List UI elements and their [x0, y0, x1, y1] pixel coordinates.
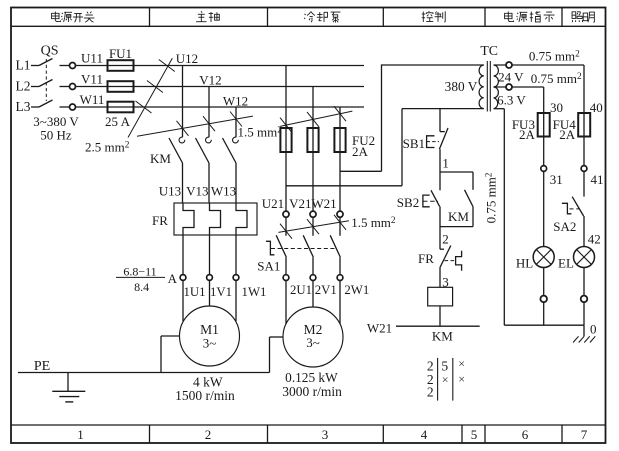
svg-text:V12: V12 [199, 72, 221, 87]
svg-text:2U1: 2U1 [290, 283, 312, 297]
svg-text:6.8−11: 6.8−11 [123, 264, 156, 278]
svg-text:W13: W13 [211, 183, 236, 198]
svg-text:A: A [168, 271, 178, 286]
svg-text:2A: 2A [559, 127, 576, 142]
svg-text:1.5 mm2: 1.5 mm2 [351, 215, 396, 230]
svg-text:SA2: SA2 [553, 219, 576, 234]
svg-text:2.5 mm2: 2.5 mm2 [85, 140, 130, 155]
svg-text:4: 4 [421, 427, 428, 442]
svg-text:3~: 3~ [306, 335, 320, 350]
svg-text:2W1: 2W1 [344, 283, 369, 297]
svg-text:1V1: 1V1 [210, 285, 232, 299]
svg-text:31: 31 [550, 172, 563, 187]
svg-text:W12: W12 [223, 93, 248, 108]
svg-text:5: 5 [471, 427, 478, 442]
svg-text:L2: L2 [16, 79, 31, 94]
svg-text:41: 41 [591, 172, 604, 187]
svg-text:SA1: SA1 [257, 258, 280, 273]
svg-text:FR: FR [152, 213, 168, 228]
svg-text:25 A: 25 A [105, 114, 131, 129]
svg-text:KM: KM [150, 151, 171, 166]
svg-text:3000 r/min: 3000 r/min [282, 384, 342, 399]
svg-text:SB2: SB2 [397, 195, 419, 210]
svg-text:1U1: 1U1 [183, 285, 205, 299]
svg-text:KM: KM [448, 209, 469, 224]
svg-text:2A: 2A [519, 127, 536, 142]
svg-text:42: 42 [588, 232, 601, 247]
svg-text:V13: V13 [186, 183, 208, 198]
svg-text:6.3 V: 6.3 V [497, 92, 526, 107]
svg-text:1: 1 [442, 155, 449, 170]
svg-text:0.75 mm2: 0.75 mm2 [531, 71, 582, 86]
svg-text:W11: W11 [80, 92, 105, 107]
svg-text:U11: U11 [81, 51, 103, 66]
svg-text:2: 2 [205, 427, 212, 442]
svg-text:PE: PE [34, 359, 50, 374]
svg-text:0.125 kW: 0.125 kW [285, 370, 338, 385]
svg-text:V11: V11 [81, 72, 103, 87]
svg-text:1500 r/min: 1500 r/min [175, 388, 235, 403]
svg-text:KM: KM [432, 328, 453, 343]
svg-text:2: 2 [427, 384, 434, 399]
svg-text:EL: EL [558, 255, 574, 270]
svg-text:×: × [458, 372, 465, 386]
svg-text:W21: W21 [311, 196, 336, 211]
svg-text:40: 40 [590, 100, 603, 115]
svg-text:HL: HL [516, 255, 533, 270]
svg-text:0.75 mm2: 0.75 mm2 [484, 173, 499, 224]
svg-text:24 V: 24 V [498, 70, 524, 85]
svg-text:U13: U13 [159, 183, 181, 198]
svg-text:3: 3 [322, 427, 329, 442]
svg-text:2A: 2A [352, 144, 369, 159]
svg-text:U21: U21 [262, 196, 284, 211]
svg-text:380 V: 380 V [445, 79, 478, 94]
svg-text:3~: 3~ [203, 336, 217, 351]
svg-text:U12: U12 [176, 51, 198, 66]
svg-text:0: 0 [590, 322, 597, 337]
svg-text:L1: L1 [16, 58, 31, 73]
svg-text:6: 6 [522, 427, 529, 442]
svg-text:QS: QS [41, 43, 59, 58]
svg-text:1W1: 1W1 [242, 285, 267, 299]
svg-text:FU1: FU1 [109, 46, 132, 61]
svg-text:SB1: SB1 [403, 136, 425, 151]
svg-text:FR: FR [418, 251, 434, 266]
svg-text:2V1: 2V1 [315, 283, 337, 297]
svg-text:30: 30 [550, 100, 563, 115]
svg-text:1.5 mm2: 1.5 mm2 [238, 125, 283, 140]
svg-text:8.4: 8.4 [134, 280, 149, 294]
svg-text:V21: V21 [289, 196, 311, 211]
svg-text:5: 5 [441, 359, 448, 374]
svg-text:W21: W21 [367, 320, 392, 335]
svg-text:1: 1 [77, 427, 84, 442]
svg-text:7: 7 [581, 427, 588, 442]
svg-text:TC: TC [480, 43, 498, 58]
svg-text:50 Hz: 50 Hz [40, 128, 72, 143]
svg-text:×: × [442, 373, 449, 387]
svg-text:L3: L3 [16, 99, 31, 114]
svg-text:2: 2 [442, 231, 449, 246]
svg-text:×: × [458, 357, 465, 371]
svg-text:0.75 mm2: 0.75 mm2 [529, 49, 580, 64]
